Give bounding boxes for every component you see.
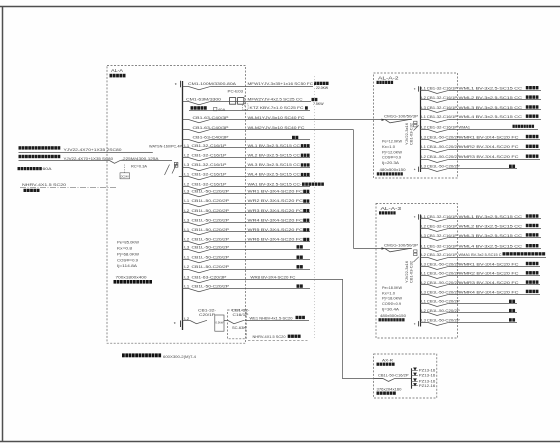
svg-text:WL2 BV-3x2.5-SC15 CC: WL2 BV-3x2.5-SC15 CC bbox=[248, 152, 301, 157]
svg-text:CB1L-50-C20/2P: CB1L-50-C20/2P bbox=[192, 284, 230, 289]
breaker CB1L-50-C20/2P AL-A-3 spare 2 bbox=[420, 309, 517, 316]
svg-text:WA1 BV-3x2.5-SC15 CC-: WA1 BV-3x2.5-SC15 CC- bbox=[248, 181, 303, 186]
svg-text:NHRV-4X1.5 SC20: NHRV-4X1.5 SC20 bbox=[22, 183, 66, 187]
bus AL-A-3 top mark bbox=[414, 214, 419, 220]
svg-text:RC=0.3A: RC=0.3A bbox=[131, 165, 148, 169]
svg-text:CB1L-50-C20/2P: CB1L-50-C20/2P bbox=[192, 189, 230, 194]
svg-text:CB1-32-C16/1P: CB1-32-C16/1P bbox=[427, 115, 458, 119]
svg-text:CB1-32-C16/1P: CB1-32-C16/1P bbox=[427, 96, 458, 100]
breaker CB1L-50-C20/2P AL-A-3 spare 1 bbox=[420, 300, 517, 307]
svg-text:CB1-32-C16/1P: CB1-32-C16/1P bbox=[427, 87, 458, 91]
svg-text:L1: L1 bbox=[184, 173, 189, 177]
svg-text:WE1 NHBV-4x1.5-SC20: WE1 NHBV-4x1.5-SC20 bbox=[250, 317, 293, 321]
breaker CB1-32-C16/1P circuit WML4 2F lighting bbox=[420, 114, 541, 122]
svg-text:CM1G-100/50/3P: CM1G-100/50/3P bbox=[384, 115, 419, 119]
svg-text:WMA1: WMA1 bbox=[459, 124, 471, 129]
breaker CB1L-50-C20/2P spare 1 bbox=[183, 244, 311, 252]
panel AL-A-3 enclosure (dashed) bbox=[376, 204, 458, 339]
svg-text:WMR3 BV-3X4-SC20 FC: WMR3 BV-3X4-SC20 FC bbox=[459, 154, 519, 159]
breaker CB1L-50-C20/2P circuit WMR2 3F sockets bbox=[420, 271, 540, 279]
breaker CB1-32-C16/1P circuit WML1 3F lighting bbox=[420, 214, 541, 222]
svg-text:L3: L3 bbox=[184, 163, 189, 167]
bus bottom mark bbox=[174, 321, 181, 329]
breaker CB1L-50-C20/2P circuit WR2 sockets bbox=[183, 198, 311, 207]
panel AL-A enclosure (dashed) bbox=[107, 66, 246, 344]
svg-text:CB1L-50-C20/2P: CB1L-50-C20/2P bbox=[427, 318, 460, 322]
svg-text:CB1L-50-C20/2P: CB1L-50-C20/2P bbox=[192, 198, 230, 203]
svg-text:WR4 BV-3X4-SC20 FC: WR4 BV-3X4-SC20 FC bbox=[248, 217, 304, 222]
svg-text:CB1-32-C16/1P: CB1-32-C16/1P bbox=[427, 245, 458, 249]
note spare cable 60A bbox=[18, 167, 53, 171]
breaker CB1L-50-C20/2P circuit WR4 sockets bbox=[183, 217, 311, 225]
svg-text:L3: L3 bbox=[421, 135, 426, 139]
svg-text:L3: L3 bbox=[421, 318, 426, 322]
wire WLM2 riser to AL-A-3 bbox=[354, 130, 413, 249]
svg-text:WR5 BV-3X4-SC20 FC: WR5 BV-3X4-SC20 FC bbox=[248, 227, 304, 232]
svg-text:Pe=18.0KW: Pe=18.0KW bbox=[382, 286, 403, 290]
breaker CB1L-50-C20/2P AL-A-3 spare 3 bbox=[420, 318, 517, 325]
load column dotted divider bbox=[314, 76, 316, 338]
svg-text:AL-A-3: AL-A-3 bbox=[381, 206, 402, 211]
svg-text:CB1-63-C40/3P: CB1-63-C40/3P bbox=[193, 125, 229, 130]
breaker CB1-63-C40/3P circuit WLM1 to AL-A-2 bbox=[183, 115, 413, 123]
svg-text:L2: L2 bbox=[421, 96, 426, 100]
svg-text:Ij=114.8A: Ij=114.8A bbox=[117, 264, 138, 268]
svg-text:PZ12-16: PZ12-16 bbox=[419, 384, 436, 388]
svg-text:L2: L2 bbox=[421, 155, 426, 159]
svg-text:*: * bbox=[414, 215, 416, 220]
svg-text:40A: 40A bbox=[218, 108, 227, 112]
svg-text:Pe=12.0KW: Pe=12.0KW bbox=[382, 140, 403, 144]
svg-text:376x204x160: 376x204x160 bbox=[377, 387, 402, 391]
socket circuit PZ12-16 #4 bbox=[411, 383, 435, 388]
svg-text:*: * bbox=[414, 87, 416, 92]
breaker CB1L-50-C20/2P circuit WMR2 2F sockets bbox=[420, 144, 540, 152]
svg-text:C20/1P: C20/1P bbox=[199, 313, 216, 317]
svg-text:Pe=85.0KW: Pe=85.0KW bbox=[117, 240, 140, 244]
svg-text:L1: L1 bbox=[184, 228, 189, 232]
svg-text:*: * bbox=[414, 168, 416, 173]
bus AL-A-2 top mark bbox=[414, 86, 419, 92]
breaker CB1-32-C16/1P circuit WMA1 2F emergency bbox=[420, 124, 538, 132]
svg-text:CB1L-50-C20/2P: CB1L-50-C20/2P bbox=[427, 262, 460, 266]
socket circuit PZ13-16 #2 bbox=[411, 373, 435, 378]
svg-text:L3: L3 bbox=[421, 106, 426, 110]
residual current note RC=0.3A bbox=[131, 165, 148, 169]
riser cable tag AL-A-3 bbox=[405, 257, 419, 283]
svg-text:CB1-32-C16/1P: CB1-32-C16/1P bbox=[192, 143, 227, 148]
svg-text:60A: 60A bbox=[43, 167, 53, 171]
svg-text:L1: L1 bbox=[184, 256, 189, 260]
fire control line NHRV bbox=[20, 183, 117, 192]
svg-text:CB1L-50-C20/2P: CB1L-50-C20/2P bbox=[427, 281, 460, 285]
bus top mark bbox=[175, 81, 181, 89]
breaker CB1L-50-C20/2P spare AL-A-2 bbox=[420, 165, 517, 172]
panel AL-A-3 data block bbox=[382, 286, 403, 311]
panel AL-A label bbox=[110, 68, 126, 77]
svg-text:CB1-32-C16/1P: CB1-32-C16/1P bbox=[427, 253, 458, 257]
svg-text:L2: L2 bbox=[184, 238, 189, 242]
panel AL-A-2 enclosure (dashed) bbox=[374, 73, 458, 178]
svg-text:L3: L3 bbox=[421, 262, 426, 266]
panel AL-A-2 label bbox=[377, 75, 400, 84]
svg-text:L3: L3 bbox=[184, 218, 189, 222]
breaker CB1-32-C16/1P circuit WA1 emergency lighting bbox=[183, 181, 324, 189]
breaker CM1G-100/50 incoming AL-A-2 bbox=[382, 115, 419, 127]
svg-text:COSΦ=0.9: COSΦ=0.9 bbox=[382, 302, 401, 306]
svg-text:WR8 BV-3X4-SC20 FC: WR8 BV-3X4-SC20 FC bbox=[250, 275, 295, 280]
svg-text:PC-E03: PC-E03 bbox=[228, 90, 244, 94]
breaker CM1G-100/50 incoming AL-A-3 bbox=[382, 243, 419, 255]
svg-text:WMR2 BV-3X4-SC20 FC: WMR2 BV-3X4-SC20 FC bbox=[459, 144, 519, 149]
breaker CB1L-50-C20/2P circuit WR3 sockets bbox=[183, 208, 311, 216]
svg-text:0.5kW: 0.5kW bbox=[215, 321, 223, 325]
breaker CB1-32-C16/1P circuit WL4 lighting bbox=[183, 172, 311, 180]
svg-text:L1: L1 bbox=[421, 87, 426, 91]
svg-text:L1: L1 bbox=[421, 245, 426, 249]
svg-text:WML3 BV-3x2.5-SC15 CC: WML3 BV-3x2.5-SC15 CC bbox=[459, 105, 523, 110]
fire supply line NHRV bottom bbox=[248, 335, 308, 341]
svg-text:CB1L-50-C20/2P: CB1L-50-C20/2P bbox=[427, 290, 460, 294]
breaker CB1L-50-C20/2P circuit WR5 sockets bbox=[183, 227, 311, 235]
svg-text:L1: L1 bbox=[184, 144, 189, 148]
breaker CB1-63-C20/3P circuit WR8 to AX-R bbox=[183, 275, 344, 283]
svg-text:L1: L1 bbox=[184, 199, 189, 203]
svg-text:WMA1 BV-3x2.5-SC15 C: WMA1 BV-3x2.5-SC15 C bbox=[459, 252, 502, 257]
svg-text:DC24V: DC24V bbox=[121, 175, 129, 179]
svg-text:Pj=12.0KW: Pj=12.0KW bbox=[382, 150, 403, 154]
bus AL-A-3 bottom mark bbox=[414, 321, 419, 327]
svg-text:*: * bbox=[414, 322, 416, 327]
svg-text:L1: L1 bbox=[421, 272, 426, 276]
svg-text:WL1 BV-3x2.5-SC15 CC: WL1 BV-3x2.5-SC15 CC bbox=[248, 143, 301, 148]
svg-text:WL4 BV-3x2.5-SC15 CC: WL4 BV-3x2.5-SC15 CC bbox=[248, 172, 301, 177]
svg-text:YJV22-3x16: YJV22-3x16 bbox=[405, 261, 409, 283]
breaker CB1L-50-C20/2P spare 2 bbox=[183, 255, 311, 263]
svg-text:-225M/4300-125A: -225M/4300-125A bbox=[122, 157, 160, 161]
svg-text:L2: L2 bbox=[184, 182, 189, 186]
svg-text:CB1-63-C40/3P: CB1-63-C40/3P bbox=[193, 134, 229, 139]
panel AL-A data block bbox=[117, 240, 140, 268]
svg-text:Pj=68.0KW: Pj=68.0KW bbox=[117, 252, 140, 256]
svg-text:Kx=1.0: Kx=1.0 bbox=[382, 291, 395, 295]
svg-text:L3: L3 bbox=[184, 276, 189, 280]
socket circuit PZ13-16 #1 bbox=[411, 368, 435, 373]
svg-text:WLM2YJV-5x10 SC40 FC: WLM2YJV-5x10 SC40 FC bbox=[248, 125, 305, 130]
svg-text:L2: L2 bbox=[184, 209, 189, 213]
svg-text:480x500x150: 480x500x150 bbox=[380, 314, 406, 318]
svg-text:WR3 BV-3X4-SC20 FC: WR3 BV-3X4-SC20 FC bbox=[248, 208, 304, 213]
box AX-R enclosure (dashed) bbox=[374, 354, 437, 398]
breaker CB1-32-C16/1P circuit WML1 2F lighting bbox=[420, 86, 541, 94]
wire feeder WL-in1 bbox=[19, 152, 153, 154]
svg-text:L2: L2 bbox=[421, 125, 426, 129]
svg-text:WMR3 BV-3X4-SC20 FC: WMR3 BV-3X4-SC20 FC bbox=[459, 280, 519, 285]
svg-text:COSΦ=0.9: COSΦ=0.9 bbox=[117, 258, 138, 262]
svg-text:C16/1P: C16/1P bbox=[233, 313, 250, 317]
svg-text:WMR4 BV-3X4-SC20 FC: WMR4 BV-3X4-SC20 FC bbox=[459, 289, 519, 294]
svg-text:CB1L-50-C20/2P: CB1L-50-C20/2P bbox=[427, 309, 460, 313]
breaker CB1L-50-C20/2P spare 3 bbox=[183, 264, 311, 273]
svg-text:WML1 BV-3x2.5-SC15 CC: WML1 BV-3x2.5-SC15 CC bbox=[459, 86, 523, 91]
breaker CB1-32-C16/1P circuit WL2 lighting bbox=[183, 152, 311, 160]
breaker CB1-32-C16/1P circuit WML3 3F lighting bbox=[420, 233, 541, 241]
svg-text:L1: L1 bbox=[421, 115, 426, 119]
svg-text:CB1L-50-C20/2P: CB1L-50-C20/2P bbox=[427, 145, 460, 149]
svg-text:L2: L2 bbox=[184, 265, 189, 269]
drawing title caption bbox=[122, 353, 197, 359]
breaker CB1-32-C16/1P circuit WML2 2F lighting bbox=[420, 95, 541, 103]
svg-text:WML1 BV-3x2.5-SC15 CC: WML1 BV-3x2.5-SC15 CC bbox=[459, 214, 523, 219]
bus AL-A-3 busbar bbox=[420, 215, 422, 327]
bus AL-A-2 bottom mark bbox=[414, 167, 419, 173]
wire WR8 riser to AX-R bbox=[343, 280, 384, 379]
svg-text:CB1-32-C16/1P: CB1-32-C16/1P bbox=[427, 215, 458, 219]
svg-text:22.0KW: 22.0KW bbox=[316, 86, 329, 90]
svg-text:Ij=30.4A: Ij=30.4A bbox=[382, 307, 400, 311]
svg-text:CB1L-50-C16/2P: CB1L-50-C16/2P bbox=[378, 374, 409, 378]
breaker CB1-32-C16/1P circuit WL1 lighting bbox=[183, 143, 311, 151]
svg-text:CB1-32-C16/1P: CB1-32-C16/1P bbox=[192, 162, 227, 167]
svg-text:CB1-32-C16/1P: CB1-32-C16/1P bbox=[427, 106, 458, 110]
breaker CB1L-50-C20/2P circuit WMR3 2F sockets bbox=[420, 154, 540, 162]
contactor control row KTZ bbox=[189, 104, 310, 112]
svg-text:CB1-32-C16/1P: CB1-32-C16/1P bbox=[192, 181, 227, 186]
box AX-R label bbox=[377, 357, 395, 365]
svg-text:WR1 BV-3X4-SC20 FC: WR1 BV-3X4-SC20 FC bbox=[248, 189, 304, 194]
svg-text:CB1L-50-C20/2P: CB1L-50-C20/2P bbox=[427, 165, 460, 169]
svg-text:COSΦ=0.9: COSΦ=0.9 bbox=[382, 156, 401, 160]
breaker CB1-63-C40/3P circuit WLM2 to AL-A-3 bbox=[183, 125, 354, 133]
wire feeder WL-in2 bbox=[19, 160, 173, 162]
breaker CB1L-50-C16/2P AX-R bbox=[374, 374, 411, 382]
panel AL-A-2 dimensions bbox=[377, 168, 406, 175]
svg-text:AL-A-2: AL-A-2 bbox=[378, 75, 399, 80]
svg-text:CB1-63-C32: CB1-63-C32 bbox=[410, 123, 414, 145]
breaker CB1L-50-C20/2P circuit WMR3 3F sockets bbox=[420, 280, 540, 288]
svg-text:L2: L2 bbox=[421, 281, 426, 285]
breaker CB1L-50-C20/2P circuit WR6 sockets bbox=[183, 237, 311, 245]
svg-text:SC-63K: SC-63K bbox=[232, 326, 247, 330]
svg-text:CM1-63M/3300: CM1-63M/3300 bbox=[186, 97, 222, 102]
breaker CB1-63-C40/3P spare bbox=[183, 134, 311, 142]
ATS WATSN-160 bbox=[149, 145, 183, 177]
svg-text:Ij=20.3A: Ij=20.3A bbox=[382, 161, 400, 165]
bus AL-A main busbar bbox=[182, 81, 184, 330]
breaker CM1-100M/3300-80A feeder to AC unit bbox=[183, 81, 329, 90]
svg-text:WATSN-160/PC,4P: WATSN-160/PC,4P bbox=[149, 145, 183, 149]
svg-text:YJV22-3x16: YJV22-3x16 bbox=[405, 123, 409, 145]
box AX-R dimensions bbox=[377, 387, 402, 395]
breaker QF0 CM2-225M bbox=[110, 157, 160, 164]
svg-text:WML4 BV-3x2.5-SC15 CC: WML4 BV-3x2.5-SC15 CC bbox=[459, 244, 523, 249]
breaker CB1-32-C16/1P circuit WML4 3F lighting bbox=[420, 244, 541, 252]
svg-text:WL3 BV-3x2.5-SC15 CC: WL3 BV-3x2.5-SC15 CC bbox=[248, 162, 301, 167]
svg-text:WML4 BV-3x2.5-SC15 CC: WML4 BV-3x2.5-SC15 CC bbox=[459, 114, 523, 119]
svg-text:CB1-32-C16/1P: CB1-32-C16/1P bbox=[192, 172, 227, 177]
breaker CB1L-50-C20/2P circuit WMR4 3F sockets bbox=[420, 289, 540, 297]
svg-text:WLM1YJV-5x10 SC40 FC: WLM1YJV-5x10 SC40 FC bbox=[248, 115, 305, 120]
svg-text:WR6 BV-3X4-SC20 FC: WR6 BV-3X4-SC20 FC bbox=[248, 237, 304, 242]
svg-text:CB1-32-C16/1P: CB1-32-C16/1P bbox=[192, 152, 227, 157]
svg-text:CB1L-50-C20/2P: CB1L-50-C20/2P bbox=[427, 155, 460, 159]
feeder source note 2 bbox=[19, 155, 114, 161]
svg-text:CB1L-50-C20/2P: CB1L-50-C20/2P bbox=[192, 244, 230, 249]
svg-text:CB1L-50-C20/2P: CB1L-50-C20/2P bbox=[192, 217, 230, 222]
svg-text:Kx=0.8: Kx=0.8 bbox=[117, 246, 132, 250]
svg-text:L3: L3 bbox=[184, 190, 189, 194]
svg-text:PZ13-16: PZ13-16 bbox=[419, 379, 436, 383]
svg-text:WML3 BV-3x2.5-SC15 CC: WML3 BV-3x2.5-SC15 CC bbox=[459, 233, 523, 238]
svg-text:AX-R: AX-R bbox=[382, 357, 393, 362]
breaker CB1-32-C16/1P circuit WMA1 3F emergency bbox=[420, 252, 546, 260]
svg-text:480x500x150: 480x500x150 bbox=[380, 168, 406, 172]
svg-text:WMR2 BV-3X4-SC20 FC: WMR2 BV-3X4-SC20 FC bbox=[459, 271, 519, 276]
svg-text:WMR1 BV-3X4-SC20 FC: WMR1 BV-3X4-SC20 FC bbox=[459, 134, 519, 139]
svg-text:CM1G-100/50/3P: CM1G-100/50/3P bbox=[384, 243, 419, 247]
panel AL-A-3 label bbox=[379, 206, 402, 215]
svg-text:WMR1 BV-3X4-SC20 FC: WMR1 BV-3X4-SC20 FC bbox=[459, 261, 519, 266]
breaker CB1L-50-C20/2P circuit WMR1 3F sockets bbox=[420, 261, 540, 269]
breaker CB1L-50-C20/2P circuit WR1 sockets bbox=[183, 189, 311, 197]
riser cable tag AL-A-2 bbox=[405, 123, 419, 145]
panel AL-A-3 dimensions bbox=[379, 314, 407, 321]
svg-text:CB1-63-C20/3P: CB1-63-C20/3P bbox=[192, 275, 227, 280]
svg-text:Pj=18.0KW: Pj=18.0KW bbox=[382, 297, 403, 301]
bus AX-R busbar bbox=[411, 368, 413, 388]
breaker CB1-32-C16/1P circuit WML2 3F lighting bbox=[420, 223, 541, 231]
svg-text:MFW1YJV-3x35+1x16 SC50 FC: MFW1YJV-3x35+1x16 SC50 FC bbox=[248, 81, 314, 86]
svg-text:CB1L-50-C20/2P: CB1L-50-C20/2P bbox=[427, 300, 460, 304]
svg-text:PZ13-16: PZ13-16 bbox=[419, 374, 436, 378]
svg-text:PZ13-16: PZ13-16 bbox=[419, 369, 436, 373]
svg-text:WR2 BV-3X4-SC20 FC: WR2 BV-3X4-SC20 FC bbox=[248, 198, 304, 203]
breaker CB1-32-C16/1P circuit WL3 lighting bbox=[183, 162, 311, 171]
breaker CM1-63M/3300 roof fan feeder bbox=[183, 97, 325, 106]
svg-text:CB1L-50-C20/2P: CB1L-50-C20/2P bbox=[192, 255, 230, 260]
svg-text:CB1-32-C16/1P: CB1-32-C16/1P bbox=[427, 234, 458, 238]
svg-text:L2: L2 bbox=[421, 224, 426, 228]
breaker CB1-32-C16/1P circuit WML3 2F lighting bbox=[420, 105, 541, 113]
svg-text:AL-A: AL-A bbox=[111, 68, 123, 73]
svg-text:600X300-2(M)T-4: 600X300-2(M)T-4 bbox=[163, 354, 197, 359]
socket circuit PZ13-16 #3 bbox=[411, 378, 435, 383]
svg-text:CB1-32-C16/1P: CB1-32-C16/1P bbox=[427, 125, 458, 129]
svg-text:L2: L2 bbox=[421, 253, 426, 257]
svg-text:L1: L1 bbox=[421, 300, 426, 304]
svg-text:700x1800x400: 700x1800x400 bbox=[116, 275, 148, 280]
svg-text:L1: L1 bbox=[421, 215, 426, 219]
feeder source note 1 bbox=[19, 146, 122, 152]
svg-text:CB1L-50-C20/2P: CB1L-50-C20/2P bbox=[192, 208, 230, 213]
svg-text:L2: L2 bbox=[421, 309, 426, 313]
svg-text:L1: L1 bbox=[184, 285, 189, 289]
shunt trip DC24V bbox=[120, 165, 130, 179]
svg-text:YJV22-4X70+1X35 2SC80: YJV22-4X70+1X35 2SC80 bbox=[64, 148, 122, 152]
svg-text:CM1-100M/3300-80A: CM1-100M/3300-80A bbox=[188, 81, 236, 86]
panel AL-A-2 data block bbox=[382, 140, 403, 165]
svg-text:L3: L3 bbox=[421, 165, 426, 169]
bus AL-A-2 busbar bbox=[420, 87, 422, 173]
emergency EPS circuit WE1 bbox=[183, 309, 310, 332]
svg-text:CB1L-50-C20/2P: CB1L-50-C20/2P bbox=[427, 135, 460, 139]
svg-text:CB1-32-C16/1P: CB1-32-C16/1P bbox=[427, 224, 458, 228]
svg-text:CB1-63-C40/3P: CB1-63-C40/3P bbox=[193, 115, 229, 120]
svg-text:L3: L3 bbox=[184, 245, 189, 249]
svg-text:KTZ KBV-7x1.0 SC25 FC: KTZ KBV-7x1.0 SC25 FC bbox=[250, 106, 304, 110]
svg-text:NHRV-4X1.5 SC20: NHRV-4X1.5 SC20 bbox=[253, 335, 286, 339]
EPS dashed enclosure bbox=[228, 310, 247, 339]
breaker CB1L-50-C20/2P circuit WMR1 2F sockets bbox=[420, 134, 540, 142]
svg-text:WML2 BV-3x2.5-SC15 CC: WML2 BV-3x2.5-SC15 CC bbox=[459, 95, 523, 100]
kWh meter PC-E03 bbox=[228, 90, 245, 108]
svg-text:WML2 BV-3x2.5-SC15 CC: WML2 BV-3x2.5-SC15 CC bbox=[459, 223, 523, 228]
svg-text:L3: L3 bbox=[421, 234, 426, 238]
svg-text:*: * bbox=[175, 83, 177, 89]
svg-text:Kx=1.0: Kx=1.0 bbox=[382, 145, 395, 149]
svg-text:L1: L1 bbox=[421, 145, 426, 149]
svg-text:L3: L3 bbox=[421, 290, 426, 294]
svg-text:MFW2YJV-4x2.5 SC25 CC: MFW2YJV-4x2.5 SC25 CC bbox=[248, 97, 303, 102]
panel AL-A dimensions bbox=[114, 275, 153, 284]
svg-text:CB1L-50-C20/2P: CB1L-50-C20/2P bbox=[192, 227, 230, 232]
svg-text:CB1L-50-C20/2P: CB1L-50-C20/2P bbox=[192, 264, 230, 269]
svg-text:*: * bbox=[174, 322, 176, 328]
svg-text:CB1-63-C32: CB1-63-C32 bbox=[410, 261, 414, 283]
svg-text:L2: L2 bbox=[184, 153, 189, 157]
breaker CB1L-50-C20/2P spare 4 bbox=[183, 284, 311, 292]
svg-text:CB1L-50-C20/2P: CB1L-50-C20/2P bbox=[192, 237, 230, 242]
svg-text:CB1L-50-C20/2P: CB1L-50-C20/2P bbox=[427, 272, 460, 276]
